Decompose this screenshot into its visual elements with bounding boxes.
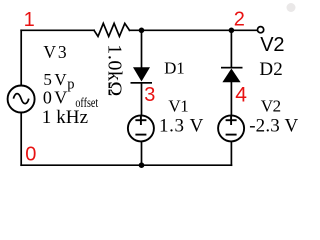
svg-text:5 V: 5 V (43, 70, 67, 89)
svg-text:0: 0 (25, 144, 36, 166)
svg-text:1.0kΩ: 1.0kΩ (104, 44, 126, 96)
svg-text:V3: V3 (43, 42, 66, 62)
svg-text:V1: V1 (168, 97, 188, 116)
svg-text:1 kHz: 1 kHz (42, 107, 88, 128)
svg-text:V2: V2 (260, 34, 284, 56)
svg-text:D1: D1 (164, 59, 185, 78)
svg-text:0 V: 0 V (43, 87, 67, 107)
svg-text:V2: V2 (261, 97, 281, 116)
svg-text:3: 3 (144, 84, 155, 106)
svg-text:1: 1 (24, 9, 35, 31)
svg-text:2: 2 (234, 8, 245, 30)
svg-text:1.3 V: 1.3 V (159, 116, 204, 137)
svg-text:D2: D2 (259, 59, 282, 80)
svg-text:p: p (67, 76, 74, 92)
svg-text:-2.3 V: -2.3 V (249, 116, 298, 137)
svg-text:4: 4 (235, 83, 247, 106)
